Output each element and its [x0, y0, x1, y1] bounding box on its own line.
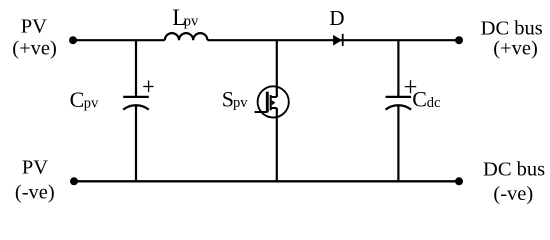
svg-text:pv: pv	[233, 95, 248, 111]
svg-text:pv: pv	[84, 95, 99, 111]
svg-text:DC bus: DC bus	[481, 17, 543, 39]
svg-text:C: C	[412, 87, 427, 112]
svg-text:(+ve): (+ve)	[493, 38, 538, 60]
svg-text:(+ve): (+ve)	[12, 38, 57, 60]
svg-text:dc: dc	[427, 95, 441, 111]
svg-text:DC bus: DC bus	[483, 158, 545, 180]
svg-text:C: C	[70, 87, 85, 112]
svg-text:pv: pv	[184, 14, 199, 30]
svg-text:D: D	[329, 6, 344, 30]
svg-text:PV: PV	[22, 157, 48, 179]
svg-text:(-ve): (-ve)	[15, 181, 55, 203]
svg-text:PV: PV	[21, 16, 47, 38]
svg-text:(-ve): (-ve)	[493, 183, 533, 205]
